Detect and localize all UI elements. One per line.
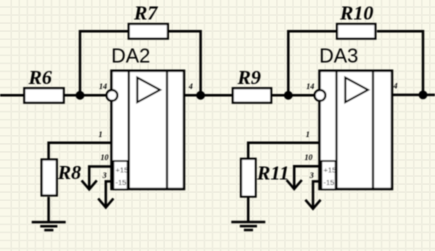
svg-text:R9: R9 — [237, 67, 261, 89]
svg-text:R11: R11 — [256, 162, 289, 184]
op-amp DA3 triangle — [345, 78, 368, 103]
svg-text:3: 3 — [102, 171, 107, 180]
resistor R11 — [241, 159, 256, 197]
pin 14 circle (input DA3) — [315, 90, 326, 101]
wire R8 to ground — [47, 197, 50, 221]
wire pin 3 supply arrow DA3 — [313, 181, 321, 208]
svg-text:1: 1 — [306, 130, 310, 139]
resistor R9 — [233, 88, 271, 103]
svg-text:14: 14 — [99, 82, 107, 91]
op-amp DA2 triangle — [137, 78, 160, 103]
svg-text:3: 3 — [309, 171, 314, 180]
wire pin 1 to R8 — [49, 143, 112, 159]
ground GND1 — [32, 222, 66, 230]
ground GND2 — [231, 222, 265, 230]
wire feedback 2 right vertical — [377, 31, 423, 95]
wire pin 1 to R11 — [248, 143, 319, 159]
svg-text:-15: -15 — [116, 178, 127, 187]
svg-text:DA3: DA3 — [319, 45, 358, 67]
svg-text:R6: R6 — [28, 67, 52, 89]
svg-text:DA2: DA2 — [111, 45, 150, 67]
svg-text:4: 4 — [188, 82, 193, 91]
svg-text:14: 14 — [306, 82, 314, 91]
wire R11 to ground — [247, 197, 250, 221]
wire pin4 DA3 to output — [392, 94, 435, 97]
svg-text:1: 1 — [99, 130, 103, 139]
node A (junction R6/feedback) — [76, 91, 85, 100]
wire feedback 2 left vertical — [288, 31, 336, 95]
op-amp DA3 body — [320, 71, 393, 189]
wire pin 3 supply arrow — [106, 181, 114, 207]
wire feedback right vertical — [169, 31, 201, 95]
wire pin 10 supply arrow — [89, 167, 111, 189]
node D (output junction DA3) — [419, 91, 428, 100]
wire input to DA2 — [0, 94, 112, 97]
node C (junction R9/feedback) — [284, 91, 293, 100]
wire pin4 to R9 — [184, 94, 232, 97]
svg-text:10: 10 — [101, 153, 109, 162]
node B (output junction DA2) — [196, 91, 205, 100]
resistor R6 — [24, 88, 63, 103]
resistor R10 — [337, 24, 375, 39]
svg-text:-15: -15 — [324, 178, 335, 187]
svg-text:R7: R7 — [133, 3, 158, 25]
wire feedback left vertical — [80, 31, 128, 95]
wire pin 10 supply arrow DA3 — [294, 166, 319, 188]
op-amp DA2 body — [112, 71, 185, 189]
power cell box DA3 — [321, 161, 335, 189]
resistor R7 — [129, 24, 168, 39]
svg-text:10: 10 — [305, 153, 313, 162]
wire R9 to DA3 — [232, 94, 320, 97]
svg-text:4: 4 — [393, 81, 398, 90]
power cell box DA2 — [113, 161, 127, 189]
svg-text:+15: +15 — [116, 166, 129, 175]
svg-text:R10: R10 — [339, 3, 373, 25]
resistor R8 — [42, 160, 57, 196]
svg-text:R8: R8 — [57, 162, 81, 184]
svg-text:+15: +15 — [324, 166, 337, 175]
pin 14 circle (input) — [107, 90, 118, 101]
